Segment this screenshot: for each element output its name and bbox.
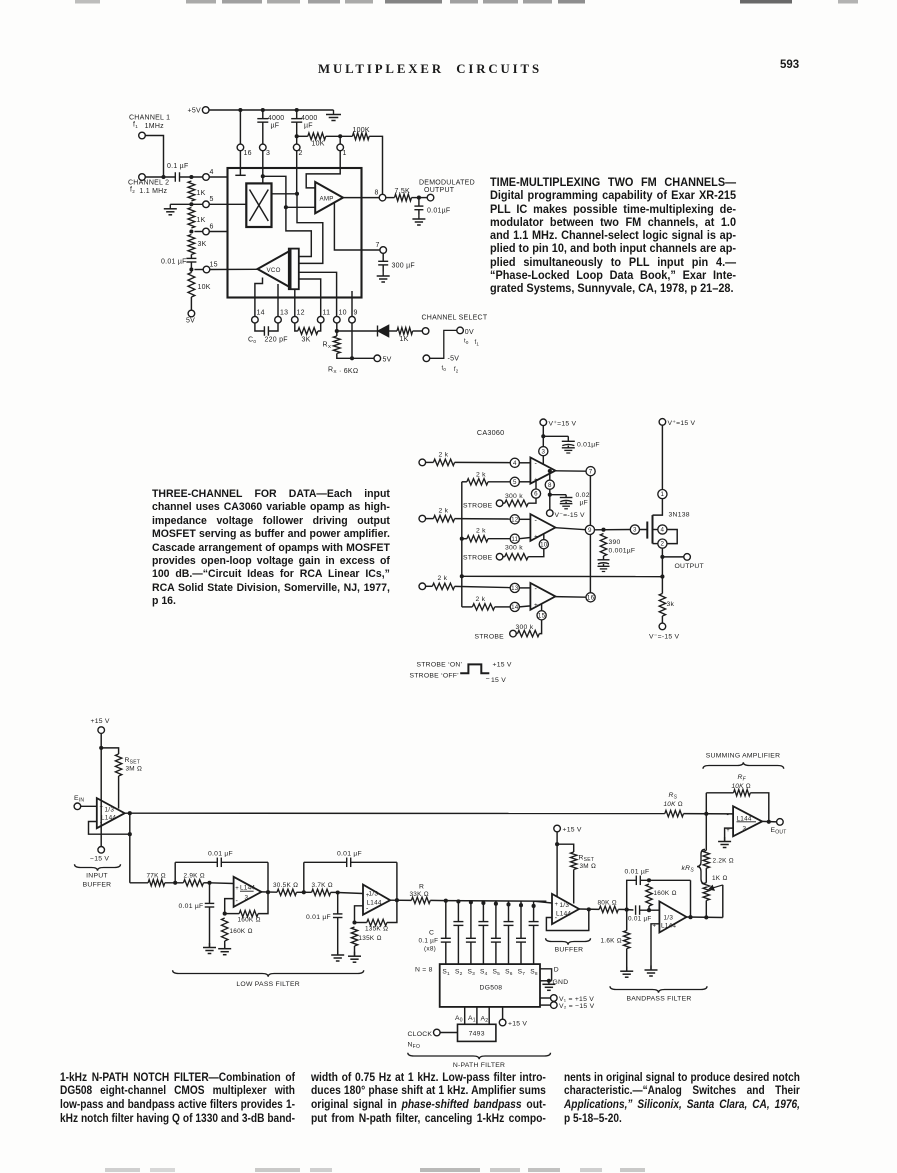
capacitor 0.01uF shunt stage1 <box>209 883 211 904</box>
svg-text:6: 6 <box>210 224 214 231</box>
pin 3 terminal <box>260 144 267 151</box>
wire buffer output long line to summing <box>125 812 665 814</box>
junction pin9 bottom <box>350 356 354 360</box>
junction Rx top <box>335 329 339 333</box>
svg-text:L144: L144 <box>101 815 116 822</box>
wire address A0 <box>464 1007 466 1024</box>
ground snubber <box>603 564 605 566</box>
ground supply bypass <box>567 446 569 448</box>
capacitor 0.01uF feedback stage2 <box>303 862 305 892</box>
wire 80K to bandpass <box>618 908 626 910</box>
junction bandpass output <box>688 915 692 919</box>
junction rail cap1 <box>261 108 265 112</box>
wire pin 13 internal <box>277 284 279 317</box>
svg-text:S4: S4 <box>480 969 488 978</box>
svg-text:9: 9 <box>354 310 358 317</box>
wire Rset to output <box>118 776 120 809</box>
ground summing plus <box>724 837 726 842</box>
resistor 1K upper <box>188 181 195 201</box>
wire to opamp stage2 plus <box>338 893 363 894</box>
svg-text:+: + <box>653 924 657 930</box>
svg-text:STROBE ‘OFF’: STROBE ‘OFF’ <box>410 673 460 680</box>
wire Rx bottom to 5V <box>337 354 374 359</box>
svg-text:V₁ = +15 V: V₁ = +15 V <box>559 996 594 1003</box>
svg-text:30.5K Ω: 30.5K Ω <box>273 882 298 889</box>
svg-text:S5: S5 <box>493 969 501 978</box>
junction rail tap S7 <box>519 903 523 907</box>
capacitor 0.02uF <box>550 494 566 496</box>
svg-text:9: 9 <box>588 527 592 534</box>
wire bandpass feedback down <box>690 880 692 917</box>
wire feedback buffer <box>546 910 588 931</box>
resistor 2k input 2 <box>425 518 433 520</box>
svg-text:3M Ω: 3M Ω <box>126 766 143 773</box>
svg-text:10: 10 <box>339 310 347 317</box>
svg-text:CHANNEL 2: CHANNEL 2 <box>128 180 169 187</box>
wire pin3 branch to AMP input <box>263 176 286 207</box>
junction demodulated output <box>417 196 421 200</box>
svg-text:S6: S6 <box>505 969 513 978</box>
ground 1.6K <box>626 967 628 972</box>
resistor 2k to pin 11 <box>467 536 488 542</box>
resistor 100K feedback <box>352 133 369 140</box>
wire pin4 to opamp A minus <box>519 462 530 464</box>
svg-text:3: 3 <box>633 527 637 534</box>
svg-text:0.01 µF: 0.01 µF <box>208 851 233 858</box>
svg-text:10: 10 <box>540 541 548 548</box>
wire pin11 to opamp B plus <box>519 538 530 539</box>
svg-text:10K: 10K <box>198 284 211 291</box>
wire feedback input buffer <box>89 822 130 835</box>
svg-text:220 pF: 220 pF <box>265 337 288 344</box>
svg-text:8: 8 <box>548 482 552 489</box>
svg-text:EOUT: EOUT <box>771 827 787 836</box>
node 5V channel-select bias <box>374 355 381 362</box>
svg-text:µF: µF <box>271 123 280 130</box>
resistor 2k to pin 14 <box>472 604 494 610</box>
svg-text:DEMODULATED: DEMODULATED <box>419 180 475 187</box>
wire pin16 into IC <box>239 151 241 169</box>
node +15V buffer <box>554 825 561 832</box>
svg-text:C0: C0 <box>248 337 256 346</box>
svg-text:+15 V: +15 V <box>563 827 582 834</box>
junction AMP minus node <box>284 205 288 209</box>
svg-text:0.01 µF: 0.01 µF <box>337 851 362 858</box>
pin 1 circled MOSFET drain <box>658 490 667 499</box>
pin V1 supply <box>540 997 551 999</box>
node 0V level terminal <box>457 327 464 334</box>
wire pin10 to opamp B <box>543 534 545 540</box>
wire 160K up to output <box>258 892 268 913</box>
resistor Rset 3M buffer <box>557 844 574 852</box>
node -5V level terminal <box>423 355 430 362</box>
node input 3 terminal <box>419 583 426 590</box>
brace input buffer <box>75 864 121 870</box>
wire to pin 4 <box>455 461 511 463</box>
junction shunt cap node stage2 <box>331 891 338 893</box>
brace low pass filter <box>173 970 364 976</box>
wire plus input to ground <box>651 924 659 970</box>
svg-text:390: 390 <box>609 539 621 546</box>
wire 7.5K to output terminal <box>412 197 428 199</box>
resistor 390 snubber <box>600 534 606 557</box>
svg-text:-: - <box>535 586 538 593</box>
svg-text:V⁺=15 V: V⁺=15 V <box>668 420 696 427</box>
svg-text:BUFFER: BUFFER <box>83 882 112 889</box>
svg-text:V⁺=15 V: V⁺=15 V <box>549 421 577 428</box>
wire cascade 9 to 16 <box>589 535 591 593</box>
ground bandpass plus <box>650 966 652 971</box>
svg-text:V₂ = −15 V: V₂ = −15 V <box>559 1003 595 1010</box>
wire opamp A output to pin 7 <box>555 470 586 472</box>
resistor 160K feedback stage1 <box>225 913 240 915</box>
svg-text:S1: S1 <box>442 969 450 978</box>
pin 14 circled <box>510 602 519 611</box>
wire 77K to 2.9K <box>165 882 184 884</box>
resistor Rs 10K <box>665 810 684 816</box>
resistor 1K lower <box>188 208 195 229</box>
wire summing output <box>762 820 777 823</box>
pin 8 terminal <box>379 194 386 201</box>
wire rail to pin 16 <box>239 110 241 144</box>
svg-text:10K Ω: 10K Ω <box>732 783 751 790</box>
junction bias branch <box>541 434 545 438</box>
svg-text:-: - <box>727 812 730 819</box>
wire opamp C output to pin 16 <box>555 596 586 599</box>
capacitor 0.01uF bandpass input <box>627 909 634 911</box>
svg-text:10K: 10K <box>312 141 325 148</box>
resistor 3K timing <box>295 323 298 331</box>
resistor Rf 10K <box>734 790 751 796</box>
svg-text:2 k: 2 k <box>439 508 449 515</box>
IC 7493 counter <box>458 1024 496 1041</box>
svg-text:L144: L144 <box>240 885 255 892</box>
svg-text:4000: 4000 <box>268 115 285 122</box>
junction Rset branch <box>99 746 103 750</box>
resistor 160K to ground stage1 <box>222 918 228 941</box>
pin 13 terminal <box>275 316 282 323</box>
wire mixer output to pin2 node <box>272 193 298 195</box>
svg-text:160K Ω: 160K Ω <box>238 917 261 924</box>
svg-text:+: + <box>235 886 239 892</box>
wire pin9 to gate node <box>595 529 631 531</box>
wire to opamp stage1 plus <box>210 882 234 885</box>
svg-text:1.6K Ω: 1.6K Ω <box>601 938 622 945</box>
junction shunt cap node stage1 <box>204 882 210 884</box>
svg-text:0.01µF: 0.01µF <box>427 208 450 215</box>
wire pin1 into IC <box>339 151 341 169</box>
wire +15V down to -15V through opamp <box>100 733 102 847</box>
wire VCO line to pin 11 <box>299 279 321 317</box>
pin 5 circled <box>510 477 519 486</box>
op-amp U2D buffer L144 <box>552 894 579 924</box>
junction 135K node <box>352 920 356 924</box>
junction mixer output <box>295 192 299 196</box>
svg-text:RF: RF <box>738 774 747 783</box>
junction rail tap S4 <box>481 901 485 905</box>
svg-text:0.01µF: 0.01µF <box>577 442 600 449</box>
svg-text:14: 14 <box>511 604 519 611</box>
svg-text:5: 5 <box>513 479 517 486</box>
junction output stage1 <box>266 890 270 894</box>
pin 7 circled <box>586 467 595 476</box>
node 5V bias terminal <box>188 310 195 317</box>
svg-text:1K: 1K <box>197 217 206 224</box>
wire AMP to pin 7 <box>334 203 380 250</box>
svg-text:135K Ω: 135K Ω <box>359 935 382 942</box>
svg-text:+15 V: +15 V <box>493 662 512 669</box>
wire mixer output to VCO input <box>297 194 323 264</box>
junction feedback cap tap stage1 <box>173 881 177 885</box>
svg-text:4000: 4000 <box>301 115 318 122</box>
pin 1 terminal <box>339 136 341 144</box>
wire ground to pin5 node <box>170 203 203 205</box>
wire V+ to pin 3 <box>542 425 544 446</box>
svg-text:DG508: DG508 <box>480 985 503 992</box>
junction summing input node <box>704 812 708 816</box>
svg-text:8: 8 <box>375 190 379 197</box>
wire strobe bus vertical <box>461 482 463 607</box>
wire output stage1 <box>261 891 277 893</box>
ground shunt stage2 <box>337 951 339 956</box>
wire pin15 to opamp C <box>541 604 543 611</box>
svg-text:-: - <box>535 517 538 524</box>
pin 12 circled <box>510 515 519 524</box>
svg-text:VCO: VCO <box>267 267 281 274</box>
junction snubber node <box>601 528 605 532</box>
svg-text:C: C <box>429 930 434 937</box>
wire output stage2 <box>390 899 411 901</box>
svg-text:-: - <box>535 461 538 468</box>
capacitor 4000uF no.1 <box>262 110 264 119</box>
wire pin 9 internal stub <box>351 291 353 317</box>
junction resistor chain top <box>189 175 193 179</box>
resistor Rx <box>333 336 340 354</box>
junction buffer output <box>128 811 132 815</box>
wire strobe waveform pulse <box>460 664 489 673</box>
wire feedback minus stage1 <box>225 899 234 914</box>
wire cap to opamp minus <box>640 909 660 911</box>
svg-text:4: 4 <box>210 169 214 176</box>
resistor R 33K <box>411 897 430 903</box>
svg-text:5: 5 <box>210 196 214 203</box>
wire channel select waveform <box>429 330 457 358</box>
svg-text:+: + <box>555 902 559 908</box>
svg-text:A1: A1 <box>468 1015 476 1024</box>
wire pin15 node to terminal and VCO <box>194 269 203 271</box>
junction 0.02uF branch <box>548 493 552 497</box>
node V+ supply MOSFET <box>659 419 666 426</box>
svg-text:L144: L144 <box>737 815 752 822</box>
pin 12 terminal <box>292 316 299 323</box>
svg-text:EIN: EIN <box>74 795 84 804</box>
wire feedback bus to output node <box>462 575 663 577</box>
svg-text:12: 12 <box>511 516 519 523</box>
ground output filter <box>418 215 420 220</box>
wire pin5 into IC <box>209 203 246 205</box>
resistor 7.5K output <box>386 197 395 199</box>
svg-text:0.01 µF: 0.01 µF <box>306 914 331 921</box>
wire 1K to channel select terminal <box>413 330 423 332</box>
svg-text:1: 1 <box>343 150 347 157</box>
junction feedback tap stage2 <box>302 890 306 894</box>
resistor 10K feedback <box>297 135 308 137</box>
pin 9 terminal <box>349 316 356 323</box>
resistor 3K <box>188 235 195 255</box>
wire EIN to opamp <box>81 805 97 807</box>
svg-text:+15 V: +15 V <box>91 718 110 725</box>
wire feedback minus stage2 <box>355 906 364 923</box>
svg-text:0.01 µF: 0.01 µF <box>161 259 187 266</box>
svg-text:7: 7 <box>589 468 593 475</box>
junction rail tap S2 <box>456 899 460 903</box>
svg-text:STROBE: STROBE <box>463 555 493 562</box>
wire pot to bottom node <box>705 901 707 918</box>
capacitor C3 0.1uF N-path <box>470 901 472 939</box>
svg-text:kRS: kRS <box>682 865 695 874</box>
wire pot wiper <box>722 885 724 918</box>
svg-text:+: + <box>534 533 538 540</box>
svg-text:V⁻=-15 V: V⁻=-15 V <box>649 634 680 641</box>
wire bandpass output <box>687 916 723 919</box>
capacitor C5 0.1uF N-path <box>495 901 497 939</box>
svg-text:V⁻=-15 V: V⁻=-15 V <box>555 512 586 519</box>
junction pin1 node <box>338 134 342 138</box>
wire pin14 to opamp C plus <box>519 606 530 607</box>
resistor 160K bandpass <box>646 884 652 906</box>
op-amp U1C CA3060 <box>530 583 555 610</box>
svg-text:0.001µF: 0.001µF <box>609 548 636 555</box>
pin 3 circled <box>539 447 548 456</box>
junction Rset2 branch <box>555 842 559 846</box>
wire pin3 into IC to mixer <box>262 151 264 184</box>
svg-text:2 k: 2 k <box>476 528 486 535</box>
node -15V supply input buffer <box>98 847 105 854</box>
capacitor C7 0.1uF N-path <box>520 901 522 939</box>
svg-text:135K Ω: 135K Ω <box>365 926 388 933</box>
svg-text:77K Ω: 77K Ω <box>147 873 166 880</box>
wire strobe3 to pin 15 <box>539 620 541 634</box>
svg-text:-5V: -5V <box>448 356 460 363</box>
resistor 77K <box>130 882 148 884</box>
ground shunt stage1 <box>209 943 211 948</box>
junction output terminal branch <box>660 555 664 559</box>
junction 10K feedback node <box>295 134 299 138</box>
brace kRs <box>697 849 705 884</box>
junction rail pin16 branch <box>238 108 242 112</box>
mixer block <box>246 183 271 227</box>
ground 0.02uF <box>565 502 567 504</box>
svg-text:N = 8: N = 8 <box>415 967 433 974</box>
brace bandpass filter <box>610 986 707 992</box>
svg-text:OUTPUT: OUTPUT <box>424 187 455 194</box>
svg-text:D: D <box>554 967 559 974</box>
wire source to output node <box>661 548 663 593</box>
node V+ supply opamp A <box>540 419 547 426</box>
wire cap to pin 4 <box>180 176 204 178</box>
wire pin8 branch <box>549 471 551 480</box>
wire output down to low pass filter <box>129 813 131 883</box>
svg-text:160K Ω: 160K Ω <box>230 928 253 935</box>
svg-text:2 k: 2 k <box>438 575 448 582</box>
resistor 135K feedback stage2 <box>355 922 367 924</box>
svg-text:2: 2 <box>661 541 665 548</box>
svg-text:3: 3 <box>245 895 249 902</box>
wire opamp B output to pin 9 <box>555 528 585 530</box>
svg-text:−15 V: −15 V <box>90 856 109 863</box>
svg-text:CHANNEL SELECT: CHANNEL SELECT <box>422 315 488 322</box>
svg-text:AMP: AMP <box>320 195 334 202</box>
svg-text:11: 11 <box>511 536 518 543</box>
op-amp U2F summing L144 <box>733 806 762 836</box>
wire pin13 to opamp C minus <box>519 587 530 589</box>
svg-text:3N138: 3N138 <box>669 512 690 519</box>
svg-text:+5V: +5V <box>188 108 201 115</box>
junction pin6 node <box>189 229 193 233</box>
wire strobe1 to pin 6 <box>528 498 536 503</box>
wire channel1 to input node <box>145 136 163 178</box>
svg-text:16: 16 <box>587 594 595 601</box>
svg-text:13: 13 <box>511 585 519 592</box>
svg-text:5V: 5V <box>186 318 195 325</box>
wire capacitor bank rail <box>446 900 547 903</box>
svg-text:3: 3 <box>743 826 747 833</box>
pin 11 terminal <box>317 316 324 323</box>
ground supply rail end <box>333 110 335 115</box>
wire VCO output loop to AMP minus input <box>286 207 311 256</box>
pin 8 circled <box>545 480 554 489</box>
pin 15 circled <box>537 611 546 620</box>
op-amp VCO with buffer bar <box>258 251 291 288</box>
capacitor 4000uF no.2 <box>296 110 298 119</box>
svg-text:NFO: NFO <box>408 1042 421 1051</box>
wire 1.6K to ground <box>626 949 628 972</box>
op-amp U2A input buffer L144 <box>97 798 125 828</box>
wire 30.5K to stage2 <box>297 891 312 893</box>
wire Rset2 to output <box>573 870 575 904</box>
wire pin3 to opamp A <box>542 456 544 465</box>
wire strobe2 to pin 10 <box>528 549 544 557</box>
wire pin9 down <box>351 323 353 359</box>
wire AMP output to pin 8 <box>343 197 379 199</box>
resistor 30.5K <box>277 889 297 895</box>
wire gate lead from pin 3 <box>630 529 647 531</box>
pin 9 circled <box>585 525 594 534</box>
svg-text:15: 15 <box>210 262 218 269</box>
brace summing amplifier <box>703 762 784 768</box>
svg-text:33K Ω: 33K Ω <box>410 891 429 898</box>
capacitor 0.001uF snubber <box>603 556 605 560</box>
resistor 3.7K <box>312 889 331 895</box>
IC XR-215 package outline <box>228 168 362 298</box>
junction bandpass input node <box>625 908 629 912</box>
pin 4 circled substrate <box>653 529 658 531</box>
svg-text:5V: 5V <box>383 357 392 364</box>
svg-text:300 µF: 300 µF <box>392 263 415 270</box>
svg-text:+15 V: +15 V <box>508 1021 527 1028</box>
svg-text:12: 12 <box>297 310 305 317</box>
wire 33K to capacitor rail <box>430 899 446 901</box>
svg-text:10K Ω: 10K Ω <box>664 801 683 808</box>
pin 4 circled <box>510 458 519 467</box>
wire rail to buffer plus <box>534 901 552 903</box>
svg-text:N-PATH FILTER: N-PATH FILTER <box>453 1062 505 1069</box>
junction rail tap S5 <box>494 902 498 906</box>
wire between 2.2K and pot <box>705 868 707 883</box>
svg-text:RS: RS <box>669 792 678 801</box>
pin 7 terminal <box>380 247 387 254</box>
svg-text:11: 11 <box>323 310 331 317</box>
